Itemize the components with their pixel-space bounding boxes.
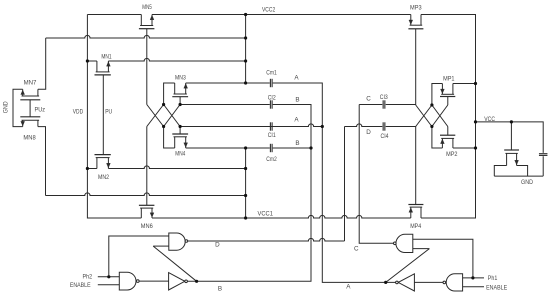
- wire right X diagonal C-corner to Bp vertex: [416, 105, 432, 127]
- wire right X diagonal Bp to MP1 gate corner: [432, 105, 448, 127]
- wire VCC2 top rail middle segment: [152, 14, 411, 16]
- wire PU gate vertical MN1-MN2: [102, 75, 104, 155]
- wire MP1 gate lead: [447, 97, 449, 106]
- capacitor CI1: [270, 122, 272, 130]
- wire gate U6 output to inverter U4 input: [414, 281, 443, 283]
- wire PUz gate vertical MN7-MN8: [29, 100, 31, 117]
- junction y=38 line: [244, 36, 247, 39]
- net label PU: [105, 109, 112, 116]
- net label VCC2: [262, 7, 276, 14]
- capacitor Cm2 label: [266, 156, 277, 163]
- wire output stage drain stub right: [517, 166, 528, 177]
- junction right X vertex Tp: [430, 103, 433, 106]
- wire MN3 gate lead: [179, 97, 181, 105]
- junction MN2 drain on VDD: [86, 167, 89, 170]
- transistor MP4: [408, 205, 423, 219]
- wire cross-coupling diagonal T vertex to MN4 gate node: [164, 105, 181, 127]
- transistor MN1: [95, 61, 111, 75]
- wire MN8 drain down and right to node x=245.6: [38, 127, 246, 196]
- svg-text:MN6: MN6: [141, 223, 153, 230]
- transistor MP3 label: [410, 4, 422, 11]
- net label VDD: [73, 109, 84, 116]
- wire MN3 drain elbow to X vertex T: [164, 83, 175, 105]
- svg-text:VCC2: VCC2: [262, 7, 276, 14]
- junction Ph2 split: [107, 275, 110, 278]
- svg-text:A: A: [294, 75, 299, 82]
- net label Ph2: [83, 273, 93, 280]
- svg-text:GND: GND: [521, 179, 533, 186]
- nand gate U3 (output C): [394, 234, 413, 252]
- junction MN1 source line: [244, 59, 247, 62]
- capacitor CI2: [270, 100, 272, 108]
- wire vertical x=245.6 upper (VCC2 to node A line): [245, 15, 247, 84]
- svg-text:MN7: MN7: [24, 80, 37, 87]
- wire MP3 gate vertical down to right X: [415, 29, 417, 105]
- wire MP1 source to VCC border: [453, 83, 476, 85]
- junction A line split to U3: [384, 281, 387, 284]
- wire Ph2 input stub: [98, 276, 120, 278]
- junction Ci1 line A vertical: [321, 125, 324, 128]
- net label ENABLE left: [70, 282, 91, 289]
- wire cross-coupling diagonal B vertex to MN3 gate node: [164, 105, 181, 127]
- svg-text:VCC: VCC: [484, 116, 495, 123]
- node B line: MN4 source to Cm2: [186, 147, 270, 149]
- junction output stage gate tap: [510, 120, 513, 123]
- wire MN2 source to node x=245.6: [108, 166, 245, 169]
- net label ENABLE right: [486, 284, 507, 291]
- capacitor Cm2: [270, 144, 272, 152]
- capacitor CI3 label: [380, 94, 388, 101]
- node D line: Ci4 to right X: [386, 126, 416, 128]
- net label GND right: [521, 179, 533, 186]
- svg-text:VCC1: VCC1: [258, 211, 274, 218]
- wire output stage source stub left: [494, 166, 506, 177]
- svg-text:B: B: [295, 97, 299, 104]
- svg-text:MP2: MP2: [446, 151, 458, 158]
- svg-text:MN5: MN5: [142, 4, 152, 11]
- svg-text:D: D: [215, 242, 220, 249]
- svg-text:A: A: [346, 284, 351, 291]
- svg-text:Cm2: Cm2: [266, 156, 277, 163]
- svg-text:A: A: [294, 117, 299, 124]
- svg-text:MP4: MP4: [410, 223, 421, 230]
- svg-text:C: C: [354, 245, 359, 252]
- wire MP2 gate lead: [447, 127, 449, 136]
- wire D vertical down, D line left to gate U1 output: [188, 127, 345, 242]
- node A line: MN4 gate node to Ci1 to A vertical: [180, 124, 322, 127]
- junction X vertex B: [162, 125, 165, 128]
- junction Ph1 split: [471, 276, 474, 279]
- svg-text:CI2: CI2: [268, 94, 276, 101]
- transistor MP4 label: [410, 223, 421, 230]
- transistor MN5 label: [142, 4, 152, 11]
- transistor MN2: [95, 155, 111, 169]
- net label GND rotated left: [2, 101, 9, 113]
- wire MP2 drain elbow to Bp vertex: [432, 127, 443, 149]
- capacitor Cm1: [270, 79, 272, 87]
- wire right X diagonal Tp to MP2 gate corner: [432, 105, 448, 127]
- transistor MN7: [20, 89, 40, 100]
- node B line: Cm2 to B vertical: [273, 147, 311, 149]
- svg-text:CI3: CI3: [380, 94, 388, 101]
- net label C on Ci3 line: [366, 96, 371, 103]
- wire diagonal inverter U4 output to gate U3 input 2: [386, 249, 430, 283]
- junction MN4 gate node A: [179, 125, 182, 128]
- transistor MN7 label: [24, 80, 37, 87]
- wire right X diagonal D-corner to Tp vertex: [416, 105, 432, 127]
- net label B on Ci2 line: [295, 97, 299, 104]
- junction VCC tap: [474, 120, 477, 123]
- wire MN4 drain elbow to X vertex B: [164, 127, 175, 149]
- wire GND bottom rail: [494, 175, 543, 177]
- wire Ph2 split up to gate U1 input 1: [109, 236, 169, 277]
- wire cross-coupling diagonal MN5gate-corner to B vertex: [147, 105, 164, 127]
- capacitor bypass at output stage: [539, 154, 548, 156]
- transistor output device near GND: [504, 150, 519, 166]
- capacitor CI4: [383, 122, 385, 130]
- wire VCC1 rail middle segment: [152, 215, 411, 218]
- wire gate U3 input 2 stub: [413, 248, 430, 250]
- wire ENABLE right input stub: [463, 286, 484, 288]
- net label A on Cm1 line: [294, 75, 299, 82]
- wire C vertical down to gate U3 output: [359, 105, 393, 244]
- inverter U4: [396, 274, 415, 291]
- svg-text:MP1: MP1: [443, 76, 455, 83]
- svg-text:MN1: MN1: [101, 53, 112, 60]
- wire VCC stub to output stage and bypass cap: [476, 122, 544, 153]
- net label A at inverter U4 output: [346, 284, 351, 291]
- wire MN4 gate lead: [179, 127, 181, 135]
- net label C at gate U3 output: [354, 245, 359, 252]
- transistor MN5: [139, 15, 155, 29]
- transistor MN3: [172, 83, 188, 97]
- wire MN7 source to GND left vertical to MN8 source: [13, 89, 23, 126]
- wire vertical x=245.6 lower (Cm2 line to VCC1): [245, 148, 247, 218]
- transistor MP2: [440, 135, 455, 148]
- transistor MN4: [172, 134, 188, 148]
- net label VCC: [484, 116, 495, 123]
- svg-text:MN3: MN3: [175, 74, 186, 81]
- transistor MN6: [139, 205, 155, 218]
- svg-text:Cm1: Cm1: [266, 70, 277, 77]
- inverter U2: [169, 273, 188, 290]
- wire line to MN7 drain from node at x=245.6 (y=38): [38, 35, 246, 89]
- transistor MN2 label: [98, 174, 109, 181]
- svg-text:CI1: CI1: [268, 132, 276, 139]
- wire MN1 source to node x=245.6: [108, 58, 245, 61]
- transistor MN8 label: [23, 135, 36, 142]
- junction X vertex T: [162, 103, 165, 106]
- junction MN3 gate node B: [179, 103, 182, 106]
- wire output stage gate tap: [510, 122, 512, 150]
- svg-text:MN2: MN2: [98, 174, 109, 181]
- wire gate U1 input 2 stub: [153, 245, 169, 247]
- net label D at gate U1 output: [215, 242, 220, 249]
- transistor MP3: [408, 15, 423, 29]
- node C line: Ci3 to right X: [386, 104, 416, 106]
- net label A on Ci1 line: [294, 117, 299, 124]
- svg-text:MP3: MP3: [410, 4, 422, 11]
- node B line: Ci2 to B vertical down to B bottom line to inverter U1: [187, 105, 311, 282]
- wire Ph1 split up to gate U3 input 1: [413, 239, 473, 278]
- net label B on Cm2 line: [295, 140, 299, 147]
- transistor MN8: [20, 117, 40, 127]
- junction node B Cm2 line: [244, 146, 247, 149]
- svg-text:Ph1: Ph1: [488, 275, 498, 282]
- wire MP1 drain elbow to Tp vertex: [432, 84, 443, 106]
- wire bypass cap bottom to GND bottom rail: [542, 156, 544, 176]
- nand gate U5 (inputs Ph2/ENABLE): [119, 272, 139, 290]
- capacitor CI3: [383, 100, 385, 108]
- wire MN2 drain to VDD: [87, 168, 97, 170]
- capacitor Cm1 label: [266, 70, 277, 77]
- capacitor CI2 label: [268, 94, 276, 101]
- svg-text:GND: GND: [2, 101, 9, 113]
- transistor MP1 label: [443, 76, 455, 83]
- wire cross-coupling diagonal MN6gate-corner to T vertex: [147, 105, 164, 127]
- transistor MN4 label: [175, 151, 185, 158]
- transistor MN3 label: [175, 74, 186, 81]
- svg-text:Ph2: Ph2: [83, 273, 93, 280]
- node A line: Cm1 to A vertical down to A bottom line to inverter U2: [273, 83, 396, 282]
- wire MP4 gate vertical up to right X: [415, 127, 417, 205]
- svg-text:B: B: [218, 286, 222, 293]
- node D line: D vertical to Ci4 (hops C vertical): [345, 124, 383, 127]
- wire diagonal inverter U2 output to gate U1 input 2: [153, 246, 196, 281]
- transistor MP1: [440, 84, 455, 97]
- junction MP1 source on VCC border: [474, 82, 477, 85]
- junction MN2 source line: [244, 167, 247, 170]
- node A line: MN3 source to Cm1: [186, 82, 270, 84]
- capacitor CI1 label: [268, 132, 276, 139]
- net label VCC1: [258, 211, 274, 218]
- svg-text:CI4: CI4: [381, 133, 389, 140]
- junction node A Cm1 line: [244, 81, 247, 84]
- svg-text:PUz: PUz: [35, 107, 46, 114]
- node C line: C vertical to Ci3: [359, 104, 382, 106]
- junction MN1 drain on VDD: [86, 59, 89, 62]
- junction VCC1 rail: [244, 216, 247, 219]
- wire top rail right + right border down to VCC1 rail right segment: [421, 15, 476, 219]
- net label D on Ci4 line: [366, 129, 371, 136]
- transistor MN6 label: [141, 223, 153, 230]
- wire gate U5 output to inverter U2input -- left: [139, 280, 169, 282]
- junction right X vertex Bp: [430, 125, 433, 128]
- wire ENABLE left input stub: [98, 284, 120, 286]
- net label PUz: [35, 107, 46, 114]
- svg-text:C: C: [366, 96, 371, 103]
- junction B line split to U1: [195, 280, 198, 283]
- net label Ph1: [488, 275, 498, 282]
- junction MN8 drain line: [244, 194, 247, 197]
- net label B at inverter U2 output: [218, 286, 222, 293]
- junction top rail x=245.6: [244, 13, 247, 16]
- wire VDD vertical + VCC1 rail left segment: [87, 15, 141, 219]
- capacitor CI4 label: [381, 133, 389, 140]
- wire Ph1 input stub: [463, 277, 484, 279]
- wire VCC2 top rail left segment: [87, 14, 141, 16]
- svg-text:D: D: [366, 129, 371, 136]
- wire MN5 gate vertical down to X: [146, 29, 148, 105]
- svg-text:B: B: [295, 140, 299, 147]
- junction MP2 source on VCC border: [474, 146, 477, 149]
- svg-text:ENABLE: ENABLE: [70, 282, 91, 289]
- svg-text:PU: PU: [105, 109, 112, 116]
- transistor MN1 label: [101, 53, 112, 60]
- nand gate U6 (inputs Ph1/ENABLE): [443, 274, 463, 291]
- svg-text:ENABLE: ENABLE: [486, 284, 507, 291]
- transistor MP2 label: [446, 151, 458, 158]
- svg-text:MN4: MN4: [175, 151, 185, 158]
- wire MP2 source to VCC border: [453, 147, 476, 149]
- svg-text:VDD: VDD: [73, 109, 84, 116]
- wire MN6 gate vertical up to X: [146, 127, 148, 206]
- wire MN1 drain to VDD: [87, 60, 97, 62]
- svg-text:MN8: MN8: [23, 135, 36, 142]
- node B line: MN3 gate node to Ci2: [180, 104, 270, 106]
- nand gate U1 (output D): [169, 233, 188, 250]
- junction Cm2 line B vertical: [309, 146, 312, 149]
